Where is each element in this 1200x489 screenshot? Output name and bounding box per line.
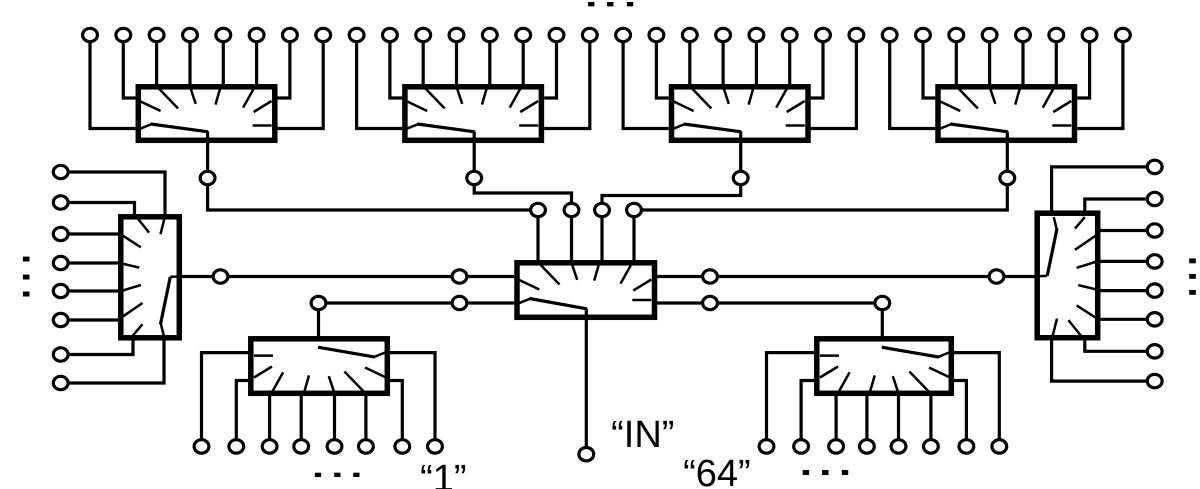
terminal circle (bottom-right output 3) xyxy=(829,440,844,453)
terminal circle (top output 8) xyxy=(316,28,331,41)
wire: bottom terminal 12 to switch U8 xyxy=(865,396,868,446)
terminal circle (bottom-left output 6) xyxy=(359,440,374,453)
wire: top terminal 7 to switch U1 xyxy=(278,35,290,98)
wire: bottom terminal 7 to switch U7 xyxy=(390,381,402,447)
wire: bottom terminal 13 to switch U8 xyxy=(897,396,900,446)
junction circle on U1 pole drop xyxy=(200,171,215,184)
wire: switch U3 pole to central switch U9 input 3 xyxy=(602,132,741,261)
wire: bottom terminal 9 to switch U8 xyxy=(767,353,815,447)
ellipsis dots (top centre) xyxy=(588,2,633,6)
wire: right terminal 6 to switch U6 xyxy=(1101,318,1155,321)
wire: top terminal 28 to switch U4 xyxy=(988,35,991,84)
terminal circle (bottom-left output 3) xyxy=(262,440,277,453)
wire: bottom terminal 16 to switch U8 xyxy=(954,353,999,447)
wire: bottom terminal 14 to switch U8 xyxy=(929,396,932,446)
terminal circle (top output 3) xyxy=(149,28,164,41)
terminal circle (bottom-left output 8) xyxy=(428,440,443,453)
wire: top terminal 31 to switch U4 xyxy=(1077,35,1089,98)
terminal circle (right output 4) xyxy=(1147,255,1162,268)
switch box U7 (bottom-left 1:8) xyxy=(251,339,387,394)
terminal circle (right output 1) xyxy=(1147,160,1162,173)
terminal circle (top output 17) xyxy=(616,28,631,41)
wire: top terminal 2 to switch U1 xyxy=(123,35,135,98)
wire: switch U4 pole to central switch U9 input 4 xyxy=(634,132,1007,261)
wire: left terminal 2 to switch U5 xyxy=(61,203,135,215)
junction circle at corner above U8 xyxy=(875,296,890,309)
terminal circle (right output 3) xyxy=(1147,224,1162,237)
switch box U5 (left 1:8) xyxy=(120,215,182,338)
terminal circle (top output 32) xyxy=(1116,28,1131,41)
terminal circle (top output 5) xyxy=(216,28,231,41)
terminal circle (top output 4) xyxy=(183,28,198,41)
wire: bottom terminal 8 to switch U7 xyxy=(390,353,435,447)
wire: bottom terminal 6 to switch U7 xyxy=(364,396,367,446)
junction circle near U9 on left link xyxy=(452,270,467,283)
terminal circle (left output 2) xyxy=(53,196,68,209)
terminal circle (top output 29) xyxy=(1016,28,1031,41)
terminal circle (top output 13) xyxy=(482,28,497,41)
wire: top terminal 13 to switch U2 xyxy=(488,35,491,84)
terminal circle (bottom-right output 1) xyxy=(759,440,774,453)
wire: top terminal 8 to switch U1 xyxy=(278,35,324,129)
terminal circle (bottom-right output 4) xyxy=(860,440,875,453)
terminal circle (top output 15) xyxy=(549,28,564,41)
wire: left terminal 6 to switch U5 xyxy=(61,318,118,321)
terminal circle (bottom-right output 5) xyxy=(891,440,906,453)
wire: right terminal 8 to switch U6 xyxy=(1052,341,1155,382)
terminal circle (bottom-left output 5) xyxy=(327,440,342,453)
terminal circle (top output 30) xyxy=(1049,28,1064,41)
wire: top terminal 12 to switch U2 xyxy=(455,35,458,84)
terminal circle (top output 22) xyxy=(782,28,797,41)
terminal circle (right output 2) xyxy=(1147,192,1162,205)
wire: top terminal 23 to switch U3 xyxy=(811,35,823,98)
junction circle near U6 on right link xyxy=(989,270,1004,283)
ellipsis dots (bottom right) xyxy=(803,470,849,475)
terminal circle (top output 26) xyxy=(916,28,931,41)
terminal circle (left output 4) xyxy=(53,256,68,269)
terminal circle (left output 8) xyxy=(53,376,68,389)
wire: right terminal 3 to switch U6 xyxy=(1101,229,1155,232)
wire: switch U2 pole to central switch U9 input 2 xyxy=(474,132,571,261)
wire: right terminal 7 to switch U6 xyxy=(1085,341,1155,352)
terminal circle (top output 27) xyxy=(949,28,964,41)
terminal circle (right output 6) xyxy=(1147,313,1162,326)
switch box U1 (top row 1:8) xyxy=(138,87,274,141)
terminal circle (left output 7) xyxy=(53,348,68,361)
wire: top terminal 5 to switch U1 xyxy=(222,35,225,84)
switch box U4 (top row 1:8) xyxy=(938,87,1075,141)
terminal circle (left output 3) xyxy=(53,227,68,240)
wire: central U9 to right switch U6 pole xyxy=(656,275,1034,278)
terminal circle (bottom-right output 7) xyxy=(959,440,974,453)
terminal circle (left output 5) xyxy=(53,284,68,297)
wire: left terminal 3 to switch U5 xyxy=(61,232,118,235)
wire: top terminal 6 to switch U1 xyxy=(255,35,258,84)
terminal circle (bottom-left output 7) xyxy=(395,440,410,453)
wire: top terminal 15 to switch U2 xyxy=(544,35,556,98)
junction circle near U5 on left link xyxy=(213,270,228,283)
terminal circle (top output 25) xyxy=(882,28,897,41)
wire: switch U1 pole to central switch U9 input 1 xyxy=(208,132,538,261)
terminal circle (top output 28) xyxy=(982,28,997,41)
junction circle on U3 pole drop xyxy=(733,171,748,184)
terminal circle (top output 2) xyxy=(116,28,131,41)
wire: top terminal 19 to switch U3 xyxy=(688,35,691,84)
terminal circle IN (input) xyxy=(579,448,594,461)
svg-text:“64”: “64” xyxy=(683,453,751,489)
terminal circle (top output 12) xyxy=(449,28,464,41)
wire: central U9 to bottom-left switch U7 input xyxy=(319,303,515,336)
terminal circle (top output 23) xyxy=(816,28,831,41)
wire: top terminal 17 to switch U3 xyxy=(623,35,669,129)
svg-text:“1”: “1” xyxy=(420,458,466,489)
junction circle near U9 on right link xyxy=(703,270,718,283)
svg-text:“IN”: “IN” xyxy=(611,414,674,456)
terminal circle (right output 7) xyxy=(1147,345,1162,358)
wire: top terminal 20 to switch U3 xyxy=(721,35,724,84)
wire: top terminal 24 to switch U3 xyxy=(811,35,857,129)
ellipsis dots (right column) xyxy=(1189,258,1196,294)
terminal circle (top output 19) xyxy=(682,28,697,41)
wire: bottom terminal 11 to switch U8 xyxy=(834,396,837,446)
junction circle at corner above U7 xyxy=(311,296,326,309)
wire: bottom terminal 5 to switch U7 xyxy=(333,396,336,446)
label "IN" (input net) xyxy=(611,414,674,456)
junction circle on U4 pole drop xyxy=(1000,171,1015,184)
terminal circle (bottom-right output 8) xyxy=(992,440,1007,453)
terminal circle (top output 18) xyxy=(649,28,664,41)
terminal circle (top output 14) xyxy=(516,28,531,41)
wire: left terminal 1 to switch U5 xyxy=(61,172,165,214)
wire: top terminal 27 to switch U4 xyxy=(955,35,958,84)
label "64" (output 64 net) xyxy=(683,453,751,489)
wire: bottom terminal 10 to switch U8 xyxy=(801,381,814,447)
terminal circle (right output 8) xyxy=(1147,374,1162,387)
wire: top terminal 29 to switch U4 xyxy=(1021,35,1024,84)
terminal circle (top output 31) xyxy=(1082,28,1097,41)
junction circle near U9 on lower-right link xyxy=(703,296,718,309)
wire: top terminal 14 to switch U2 xyxy=(522,35,525,84)
terminal circle (top output 21) xyxy=(749,28,764,41)
ellipsis dots (bottom left) xyxy=(315,473,360,477)
terminal circle (top output 24) xyxy=(849,28,864,41)
wire: top terminal 10 to switch U2 xyxy=(390,35,402,98)
terminal circle (top output 11) xyxy=(416,28,431,41)
terminal circle (bottom-right output 2) xyxy=(794,440,809,453)
wire: top terminal 32 to switch U4 xyxy=(1077,35,1123,129)
terminal circle (left output 1) xyxy=(53,165,68,178)
wire: top terminal 9 to switch U2 xyxy=(357,35,403,129)
wire: top terminal 26 to switch U4 xyxy=(923,35,935,98)
wire: top terminal 25 to switch U4 xyxy=(890,35,936,129)
ellipsis dots (left column) xyxy=(23,257,30,297)
terminal circle (left output 6) xyxy=(53,313,68,326)
terminal circle (top output 9) xyxy=(349,28,364,41)
terminal circle (bottom-left output 2) xyxy=(229,440,244,453)
wire: top terminal 4 to switch U1 xyxy=(188,35,191,84)
junction circle at central switch U9 top terminal 1 xyxy=(531,203,546,216)
terminal circle (top output 16) xyxy=(582,28,597,41)
terminal circle (bottom-right output 6) xyxy=(924,440,939,453)
switch box U3 (top row 1:8) xyxy=(672,87,809,141)
junction circle at central switch U9 top terminal 3 xyxy=(595,203,610,216)
central switch box U9 (1:8 root) xyxy=(517,263,655,318)
junction circle on U2 pole drop xyxy=(467,171,482,184)
wire: top terminal 11 to switch U2 xyxy=(422,35,425,84)
wire: top terminal 18 to switch U3 xyxy=(656,35,668,98)
wire: top terminal 1 to switch U1 xyxy=(90,35,136,129)
wire: central U9 to left switch U5 pole xyxy=(182,275,514,278)
wire: bottom terminal 1 to switch U7 xyxy=(202,353,249,447)
terminal circle (top output 20) xyxy=(716,28,731,41)
wire: top terminal 30 to switch U4 xyxy=(1055,35,1058,84)
switch box U6 (right 1:8) xyxy=(1036,213,1098,338)
wire: top terminal 3 to switch U1 xyxy=(155,35,158,84)
wire: top terminal 16 to switch U2 xyxy=(544,35,590,129)
switch box U2 (top row 1:8) xyxy=(405,87,542,141)
wire: left terminal 8 to switch U5 xyxy=(61,341,164,384)
wire: bottom terminal 15 to switch U8 xyxy=(954,381,966,447)
terminal circle (bottom-left output 1) xyxy=(194,440,209,453)
wire: right terminal 1 to switch U6 xyxy=(1052,167,1155,211)
wire: bottom terminal 3 to switch U7 xyxy=(268,396,271,446)
junction circle at central switch U9 top terminal 4 xyxy=(627,203,642,216)
junction circle near U9 on lower-left link xyxy=(452,296,467,309)
terminal circle (top output 7) xyxy=(283,28,298,41)
wire: left terminal 5 to switch U5 xyxy=(61,289,118,292)
wire: left terminal 4 to switch U5 xyxy=(61,261,118,264)
wire: central U9 to bottom-right switch U8 input xyxy=(656,303,882,336)
terminal circle (bottom-left output 4) xyxy=(294,440,309,453)
terminal circle (top output 6) xyxy=(249,28,264,41)
wire: right terminal 5 to switch U6 xyxy=(1101,289,1155,292)
wire: bottom terminal 2 to switch U7 xyxy=(236,381,248,447)
switch box U8 (bottom-right 1:8) xyxy=(817,339,952,394)
wire: bottom terminal 4 to switch U7 xyxy=(300,396,303,446)
terminal circle (top output 10) xyxy=(383,28,398,41)
wire: right terminal 4 to switch U6 xyxy=(1101,260,1155,263)
wire: left terminal 7 to switch U5 xyxy=(61,341,133,355)
wire: top terminal 22 to switch U3 xyxy=(788,35,791,84)
wire: input "IN" to central switch U9 xyxy=(585,309,588,455)
terminal circle (top output 1) xyxy=(83,28,98,41)
terminal circle (right output 5) xyxy=(1147,284,1162,297)
junction circle at central switch U9 top terminal 2 xyxy=(564,203,579,216)
label "1" (output 1 net) xyxy=(420,458,466,489)
wire: top terminal 21 to switch U3 xyxy=(755,35,758,84)
wire: right terminal 2 to switch U6 xyxy=(1085,199,1155,211)
